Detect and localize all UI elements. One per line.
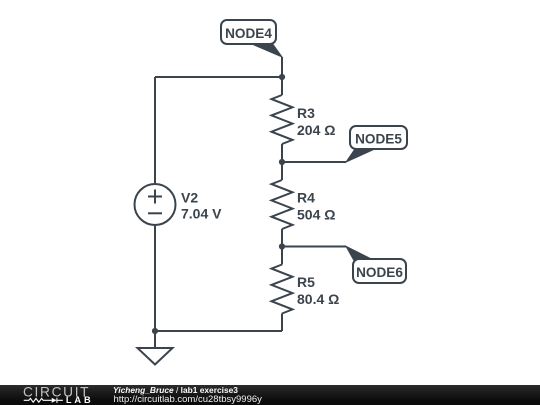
svg-text:204 Ω: 204 Ω: [297, 122, 335, 138]
svg-text:NODE4: NODE4: [225, 26, 272, 41]
svg-text:NODE5: NODE5: [355, 132, 402, 147]
svg-text:504 Ω: 504 Ω: [297, 206, 335, 222]
svg-text:R5: R5: [297, 274, 315, 290]
svg-text:R3: R3: [297, 105, 315, 121]
svg-text:R4: R4: [297, 189, 315, 205]
svg-text:7.04 V: 7.04 V: [181, 206, 222, 222]
svg-text:V2: V2: [181, 189, 198, 205]
svg-text:NODE6: NODE6: [356, 265, 403, 280]
svg-text:80.4 Ω: 80.4 Ω: [297, 291, 339, 307]
svg-text:LAB: LAB: [66, 395, 94, 405]
